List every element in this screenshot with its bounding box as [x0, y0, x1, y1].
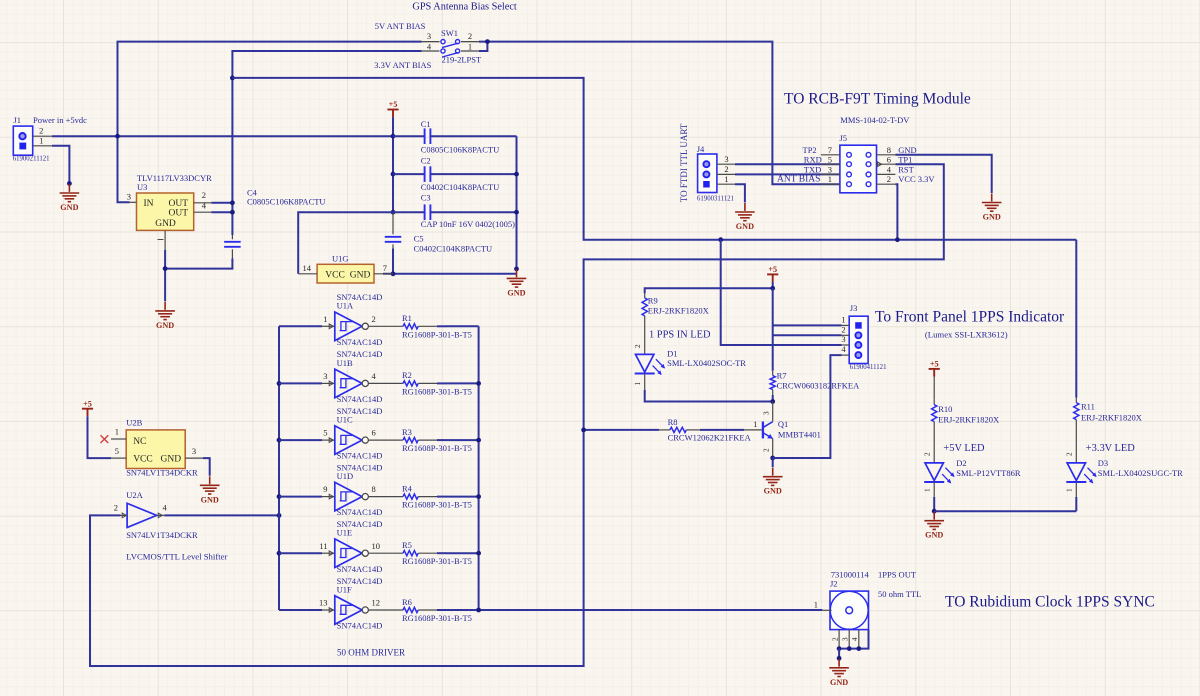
ground caps: [507, 269, 527, 287]
svg-text:50 ohm TTL: 50 ohm TTL: [878, 589, 921, 599]
svg-text:TO RCB-F9T Timing Module: TO RCB-F9T Timing Module: [784, 90, 971, 107]
junction J2 s2: [837, 646, 842, 651]
svg-text:R2: R2: [402, 370, 412, 380]
svg-text:6: 6: [372, 428, 376, 438]
ic U2B: [111, 430, 203, 469]
svg-text:1: 1: [841, 315, 845, 325]
connector J4: [698, 154, 735, 193]
svg-text:GND: GND: [925, 531, 943, 540]
svg-text:SML-LX0402SOC-TR: SML-LX0402SOC-TR: [667, 358, 746, 368]
wire +5 to R10: [933, 377, 935, 400]
svg-text:2: 2: [202, 190, 206, 200]
led D1: [636, 354, 654, 372]
svg-text:1: 1: [724, 174, 728, 184]
svg-text:+5: +5: [83, 399, 92, 408]
wire +5 vertical: [392, 117, 394, 213]
led D2: [925, 463, 943, 481]
svg-text:CRCW0603182RFKEA: CRCW0603182RFKEA: [777, 381, 861, 391]
capacitor C5: [385, 213, 402, 274]
svg-text:2: 2: [39, 126, 43, 136]
wire SW1 out: [479, 42, 487, 51]
junction vcc33: [895, 237, 900, 242]
wire J4 pin3 to J5: [735, 163, 840, 165]
wire U2A out to bus: [164, 514, 279, 516]
svg-text:CRCW12062K21FKEA: CRCW12062K21FKEA: [668, 433, 752, 443]
svg-text:ERJ-2RKF1820X: ERJ-2RKF1820X: [938, 415, 999, 425]
svg-text:SML-P12VTT86R: SML-P12VTT86R: [956, 468, 1021, 478]
svg-text:61900311121: 61900311121: [697, 195, 734, 202]
junction +5 rail / riser: [115, 134, 120, 139]
svg-text:SW1: SW1: [441, 28, 458, 38]
wire J1 pin1 to GND: [52, 146, 69, 184]
svg-text:R3: R3: [402, 427, 412, 437]
svg-text:R8: R8: [668, 417, 678, 427]
wire 3v3 to J3 pin3: [721, 240, 842, 345]
svg-text:3: 3: [127, 192, 131, 202]
power +5 D2: [929, 369, 940, 377]
svg-text:1: 1: [924, 488, 932, 492]
wire U2B pin3 gnd: [203, 458, 210, 476]
svg-text:U1A: U1A: [337, 301, 354, 311]
svg-text:2: 2: [372, 314, 376, 324]
svg-text:TXD: TXD: [804, 165, 821, 175]
svg-text:5: 5: [828, 154, 832, 164]
wire D3 cathode: [1075, 482, 1077, 511]
wire U3 out pin4: [212, 211, 233, 213]
wire J1 pin2 to +5 rail: [52, 135, 393, 137]
svg-text:2: 2: [832, 637, 840, 641]
wire output U1B: [446, 382, 478, 384]
svg-text:J4: J4: [697, 144, 705, 154]
wire J2 shield: [839, 630, 868, 649]
inverter U1A: [322, 312, 368, 341]
svg-text:10: 10: [372, 541, 381, 551]
svg-text:5: 5: [323, 428, 327, 438]
svg-text:(Lumex SSI-LXR3612): (Lumex SSI-LXR3612): [925, 330, 1008, 340]
junction out bus R6: [476, 608, 481, 613]
svg-text:SN74AC14D: SN74AC14D: [337, 621, 383, 631]
svg-text:RG1608P-301-B-T5: RG1608P-301-B-T5: [402, 443, 472, 453]
svg-text:2: 2: [114, 503, 118, 513]
wire J2 shield gnd: [838, 649, 840, 659]
ground leds: [924, 512, 944, 530]
svg-text:SN74LV1T34DCKR: SN74LV1T34DCKR: [126, 530, 198, 540]
svg-text:C5: C5: [414, 233, 424, 243]
svg-text:+5: +5: [768, 265, 777, 274]
svg-text:J3: J3: [850, 303, 858, 313]
wire D3 to D2 gnd: [934, 510, 1076, 512]
svg-text:2: 2: [468, 31, 472, 41]
svg-text:C0805C106K8PACTU: C0805C106K8PACTU: [421, 144, 500, 154]
junction U3 pin4 rail: [230, 210, 235, 215]
wire 3.3V ANT BIAS: [232, 51, 421, 235]
wire TP1 long: [90, 164, 944, 666]
wire J3 pin2 row: [773, 334, 842, 336]
svg-text:2: 2: [724, 164, 728, 174]
svg-text:1: 1: [828, 174, 832, 184]
inverter U1C: [322, 426, 368, 455]
svg-text:4: 4: [851, 637, 859, 641]
svg-text:J5: J5: [840, 133, 848, 143]
svg-text:GND: GND: [983, 213, 1001, 222]
svg-text:VCC: VCC: [133, 455, 153, 465]
svg-text:TO FTDI TTL UART: TO FTDI TTL UART: [679, 123, 689, 202]
wire 3v3 to R11: [1075, 240, 1077, 398]
capacitor C4: [224, 235, 241, 259]
junction +5 C1: [391, 134, 396, 139]
wire ANT BIAS to J5: [487, 42, 840, 185]
svg-text:To Front Panel 1PPS Indicator: To Front Panel 1PPS Indicator: [875, 308, 1065, 325]
junction bus row 5: [277, 551, 282, 556]
svg-text:SN74AC14D: SN74AC14D: [337, 394, 383, 404]
junction out bus row 2: [476, 381, 481, 386]
wire input U1E: [279, 552, 322, 554]
svg-text:Q1: Q1: [778, 419, 788, 429]
junction J2 gnd: [837, 656, 842, 661]
svg-text:3: 3: [828, 165, 832, 175]
svg-text:RG1608P-301-B-T5: RG1608P-301-B-T5: [402, 329, 472, 339]
svg-text:3.3V ANT BIAS: 3.3V ANT BIAS: [374, 60, 431, 70]
svg-text:R6: R6: [402, 597, 412, 607]
svg-text:GND: GND: [156, 321, 174, 330]
transistor Q1: [763, 402, 773, 459]
svg-text:C0402C104K8PACTU: C0402C104K8PACTU: [421, 182, 500, 192]
inverter U1F: [322, 596, 368, 625]
svg-text:U2A: U2A: [126, 490, 143, 500]
svg-text:3: 3: [427, 31, 431, 41]
svg-text:1: 1: [323, 314, 327, 324]
junction bus row 2: [277, 381, 282, 386]
ic U1G: [298, 264, 393, 283]
svg-text:3: 3: [192, 446, 196, 456]
svg-text:ERJ-2RKF1820X: ERJ-2RKF1820X: [1081, 413, 1142, 423]
svg-text:3: 3: [842, 637, 850, 641]
capacitor C2: [393, 166, 517, 182]
junction collector: [770, 399, 775, 404]
resistor R3: [368, 438, 446, 443]
wire input U1C: [279, 439, 322, 441]
svg-text:R4: R4: [402, 483, 413, 493]
junction rail C3: [514, 210, 519, 215]
junction 3.3V branch: [230, 76, 235, 81]
wire emitter gnd: [772, 458, 774, 467]
wire J3 pin1 row: [773, 324, 842, 326]
svg-text:IN: IN: [144, 199, 154, 209]
svg-text:Power in +5vdc: Power in +5vdc: [33, 115, 87, 125]
svg-text:D3: D3: [1098, 458, 1108, 468]
wire J4 pin1 gnd: [735, 184, 745, 202]
wire +5 down J3: [772, 288, 774, 371]
wire +5 to R9: [645, 282, 773, 293]
svg-text:MMS-104-02-T-DV: MMS-104-02-T-DV: [840, 115, 910, 125]
junction gnd row C5: [391, 271, 396, 276]
svg-text:1PPS OUT: 1PPS OUT: [878, 570, 917, 580]
wire input U1D: [279, 496, 322, 498]
wire C4 bottom return: [165, 259, 232, 269]
power +5 led: [767, 274, 778, 282]
junction bus row 3: [277, 438, 282, 443]
wire input U1A: [279, 325, 322, 327]
svg-text:RST: RST: [898, 165, 914, 175]
ground J5: [982, 194, 1002, 212]
svg-text:ANT BIAS: ANT BIAS: [777, 175, 820, 185]
svg-text:61900411121: 61900411121: [850, 364, 887, 371]
ground J2: [829, 659, 849, 677]
svg-text:J1: J1: [13, 115, 21, 125]
svg-text:219-2LPST: 219-2LPST: [442, 54, 482, 64]
junction +5 led: [770, 286, 775, 291]
svg-text:6: 6: [887, 154, 891, 164]
svg-text:5: 5: [115, 446, 119, 456]
connector J5: [821, 145, 896, 193]
svg-text:1: 1: [634, 382, 642, 386]
svg-text:VCC 3.3V: VCC 3.3V: [898, 174, 935, 184]
svg-text:GPS Antenna Bias Select: GPS Antenna Bias Select: [412, 2, 517, 13]
svg-text:3: 3: [841, 334, 845, 344]
wire gnd row: [383, 273, 517, 275]
ground U2B: [200, 476, 220, 494]
svg-text:C2: C2: [421, 155, 431, 165]
svg-text:1: 1: [468, 42, 472, 52]
inverter U1D: [322, 482, 368, 511]
svg-text:R10: R10: [938, 404, 952, 414]
svg-text:61900211121: 61900211121: [13, 156, 50, 163]
svg-text:SN74LV1T34DCKR: SN74LV1T34DCKR: [126, 468, 198, 478]
wire D2 cathode: [933, 482, 935, 511]
wire U1G vcc: [298, 212, 393, 274]
resistor R4: [368, 494, 446, 499]
svg-text:TO Rubidium Clock 1PPS SYNC: TO Rubidium Clock 1PPS SYNC: [945, 594, 1155, 611]
svg-text:R9: R9: [648, 296, 658, 306]
wire input U1F: [279, 609, 322, 611]
junction out bus row 3: [476, 438, 481, 443]
junction 3v3 J3 branch: [718, 237, 723, 242]
svg-text:C0805C106K8PACTU: C0805C106K8PACTU: [247, 197, 326, 207]
svg-text:1: 1: [1066, 488, 1074, 492]
svg-text:SN74AC14D: SN74AC14D: [337, 507, 383, 517]
junction bus row 4: [277, 494, 282, 499]
svg-text:2: 2: [924, 452, 932, 456]
svg-text:1: 1: [814, 599, 818, 609]
svg-text:U2B: U2B: [126, 417, 142, 427]
pin out arrow J5 pin6: [878, 162, 882, 167]
junction rail gnd: [514, 267, 519, 272]
wire J4 pin2 to J5: [735, 173, 840, 175]
svg-text:2: 2: [763, 448, 771, 452]
svg-text:3: 3: [323, 371, 327, 381]
svg-text:VCC: VCC: [325, 270, 345, 280]
svg-text:2: 2: [887, 174, 891, 184]
svg-text:8: 8: [372, 484, 376, 494]
wire output U1E: [446, 552, 478, 554]
svg-text:SN74AC14D: SN74AC14D: [337, 337, 383, 347]
junction rail C2: [514, 172, 519, 177]
resistor R5: [368, 551, 446, 556]
svg-text:RG1608P-301-B-T5: RG1608P-301-B-T5: [402, 500, 472, 510]
wire output U1D: [446, 496, 478, 498]
resistor R1: [368, 324, 446, 329]
svg-text:GND: GND: [830, 678, 848, 687]
svg-text:9: 9: [323, 484, 327, 494]
svg-text:U1F: U1F: [337, 584, 352, 594]
svg-text:RG1608P-301-B-T5: RG1608P-301-B-T5: [402, 613, 472, 623]
wire output U1C: [446, 439, 478, 441]
svg-text:ERJ-2RKF1820X: ERJ-2RKF1820X: [648, 306, 709, 316]
svg-text:14: 14: [303, 263, 312, 273]
resistor R11: [1074, 398, 1079, 463]
svg-text:GND: GND: [764, 487, 782, 496]
wire emitter to J3 pin4: [773, 355, 842, 458]
svg-text:U1G: U1G: [332, 254, 349, 264]
connector J3: [842, 316, 869, 363]
svg-text:+3.3V LED: +3.3V LED: [1086, 443, 1135, 454]
junction J2 s4: [856, 646, 861, 651]
junction bus U2A: [277, 513, 282, 518]
svg-text:OUT: OUT: [168, 209, 188, 219]
wire D1 cathode: [645, 374, 773, 402]
svg-text:7: 7: [383, 263, 387, 273]
junction U3 gnd: [163, 266, 168, 271]
svg-text:+5V LED: +5V LED: [943, 443, 985, 454]
svg-text:RXD: RXD: [804, 154, 822, 164]
svg-text:LVCMOS/TTL Level Shifter: LVCMOS/TTL Level Shifter: [126, 551, 227, 561]
resistor R6: [368, 607, 446, 612]
junction TP1 R8: [581, 428, 586, 433]
connector J1: [13, 126, 52, 155]
svg-text:SN74AC14D: SN74AC14D: [337, 451, 383, 461]
wire U3 out pin2: [212, 202, 233, 204]
capacitor C3: [393, 204, 517, 220]
buffer U2A: [121, 503, 165, 527]
ic U3 TLV1117: [130, 193, 212, 250]
svg-text:SML-LX0402SUGC-TR: SML-LX0402SUGC-TR: [1098, 468, 1183, 478]
power +5 U2B: [82, 409, 93, 417]
junction SW1 out: [485, 39, 490, 44]
svg-text:CAP 10nF 16V 0402(1005): CAP 10nF 16V 0402(1005): [421, 219, 515, 229]
svg-text:GND: GND: [350, 270, 371, 280]
svg-text:J2: J2: [830, 578, 838, 588]
svg-text:1 PPS IN LED: 1 PPS IN LED: [649, 330, 711, 341]
svg-text:GND: GND: [201, 495, 219, 504]
svg-text:GND: GND: [155, 219, 176, 229]
svg-text:+5: +5: [389, 100, 398, 109]
svg-text:C3: C3: [421, 192, 431, 202]
junction +5 C3: [391, 210, 396, 215]
svg-text:4: 4: [202, 200, 207, 210]
svg-text:4: 4: [841, 344, 846, 354]
wire +5 to U2B pin5: [88, 416, 112, 458]
junction +5 C2: [391, 172, 396, 177]
svg-text:GND: GND: [60, 203, 78, 212]
svg-text:TLV1117LV33DCYR: TLV1117LV33DCYR: [137, 173, 212, 183]
svg-text:+5: +5: [930, 360, 939, 369]
svg-text:U1B: U1B: [337, 358, 353, 368]
junction U3 pin2 rail: [230, 200, 235, 205]
svg-text:2: 2: [841, 324, 845, 334]
resistor R7: [770, 371, 775, 402]
svg-text:D2: D2: [956, 458, 966, 468]
svg-text:R7: R7: [777, 371, 787, 381]
svg-text:R1: R1: [402, 313, 412, 323]
wire VCC33 drop: [895, 184, 897, 240]
resistor R2: [368, 381, 446, 386]
junction emitter: [770, 456, 775, 461]
wire U3 gnd: [164, 250, 166, 302]
junction out bus row 4: [476, 494, 481, 499]
ground J1: [60, 184, 80, 202]
svg-text:R5: R5: [402, 540, 412, 550]
svg-text:3: 3: [724, 154, 728, 164]
svg-text:R11: R11: [1081, 402, 1095, 412]
wire output U1A: [446, 325, 478, 327]
svg-text:U3: U3: [137, 182, 147, 192]
svg-text:RG1608P-301-B-T5: RG1608P-301-B-T5: [402, 556, 472, 566]
wire J5 pin8 gnd: [895, 155, 991, 193]
svg-text:1: 1: [39, 135, 43, 145]
svg-text:GND: GND: [161, 455, 182, 465]
svg-text:U1E: U1E: [337, 528, 353, 538]
wire 3.3V rail east: [232, 78, 1076, 240]
svg-text:12: 12: [372, 598, 381, 608]
inverter U1E: [322, 539, 368, 568]
power +5 main: [387, 110, 398, 118]
resistor R8: [659, 427, 762, 432]
wire 5V ANT BIAS riser: [118, 42, 422, 203]
junction J2 s3: [847, 646, 852, 651]
svg-text:U1C: U1C: [337, 415, 353, 425]
junction out bus row 5: [476, 551, 481, 556]
svg-text:OUT: OUT: [168, 199, 188, 209]
svg-text:SN74AC14D: SN74AC14D: [337, 564, 383, 574]
resistor R10: [932, 400, 937, 463]
ground J4: [735, 203, 755, 221]
svg-text:C0402C104K8PACTU: C0402C104K8PACTU: [414, 244, 493, 254]
wire R6 to J2: [446, 609, 822, 611]
svg-text:D1: D1: [667, 348, 677, 358]
svg-text:1: 1: [753, 419, 757, 429]
svg-text:C1: C1: [421, 119, 431, 129]
svg-text:NC: NC: [133, 437, 146, 447]
led D3: [1067, 463, 1085, 481]
svg-text:13: 13: [319, 598, 328, 608]
junction J1 gnd: [67, 181, 72, 186]
wire R8 base: [584, 429, 659, 431]
wire output bus right: [478, 326, 480, 610]
svg-text:11: 11: [319, 541, 327, 551]
resistor R9: [642, 293, 647, 354]
capacitor C1: [393, 128, 517, 144]
svg-text:GND: GND: [736, 222, 754, 231]
connector J2: [822, 591, 868, 649]
wire inverter input bus: [278, 326, 280, 610]
svg-text:2: 2: [634, 344, 642, 348]
svg-text:GND: GND: [507, 288, 525, 297]
svg-text:RG1608P-301-B-T5: RG1608P-301-B-T5: [402, 386, 472, 396]
svg-text:2: 2: [1066, 452, 1074, 456]
wire input U1B: [279, 382, 322, 384]
inverter U1B: [322, 369, 368, 398]
svg-text:3: 3: [763, 411, 771, 415]
svg-text:4: 4: [887, 165, 892, 175]
ground U3: [155, 302, 175, 320]
svg-text:50 OHM DRIVER: 50 OHM DRIVER: [337, 648, 405, 658]
ground Q1: [763, 468, 783, 486]
no-connect X U2B pin1: [101, 435, 109, 443]
svg-text:U1D: U1D: [337, 471, 354, 481]
junction led gnd: [932, 509, 937, 514]
switch SW1: [422, 40, 480, 58]
svg-text:1: 1: [115, 427, 119, 437]
